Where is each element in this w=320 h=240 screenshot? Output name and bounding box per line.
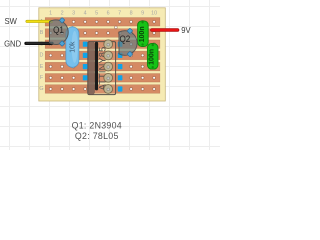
svg-text:2: 2: [61, 10, 64, 16]
svg-text:Q2: Q2: [120, 34, 131, 44]
svg-text:6: 6: [107, 10, 110, 16]
svg-text:9V: 9V: [181, 25, 191, 35]
svg-text:10k: 10k: [69, 41, 76, 53]
svg-text:5: 5: [95, 10, 98, 16]
svg-text:100n: 100n: [149, 49, 156, 65]
svg-text:4: 4: [84, 10, 87, 16]
svg-text:G: G: [39, 86, 43, 92]
svg-text:9: 9: [141, 10, 144, 16]
svg-text:Q2: 78L05: Q2: 78L05: [75, 131, 119, 141]
svg-text:3: 3: [72, 10, 75, 16]
svg-text:E: E: [40, 64, 44, 70]
svg-text:8: 8: [130, 10, 133, 16]
svg-text:7: 7: [118, 10, 121, 16]
svg-text:100n: 100n: [139, 26, 146, 42]
svg-text:D: D: [40, 53, 44, 59]
svg-text:Q1: 2N3904: Q1: 2N3904: [72, 121, 122, 131]
svg-text:1: 1: [49, 10, 52, 16]
svg-text:Q1: Q1: [53, 25, 64, 35]
svg-text:B: B: [40, 30, 44, 36]
svg-text:SW: SW: [5, 16, 18, 26]
svg-text:10: 10: [151, 10, 157, 16]
svg-text:GND: GND: [4, 39, 21, 49]
